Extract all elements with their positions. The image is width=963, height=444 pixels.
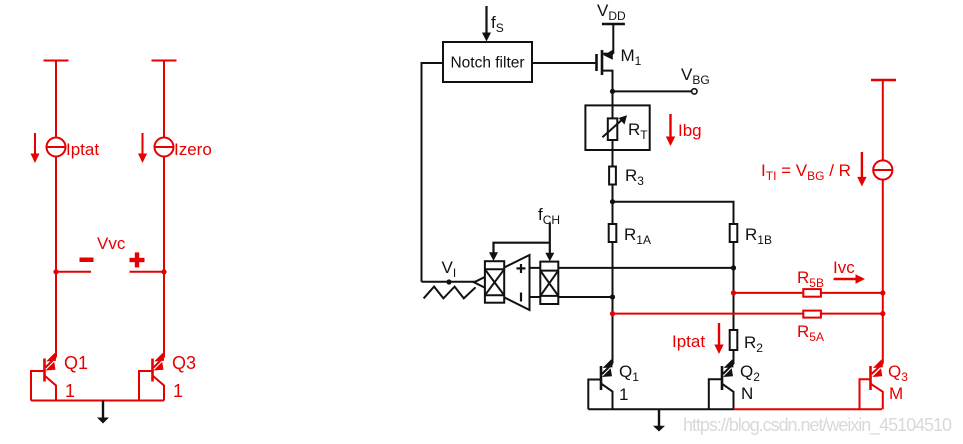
svg-text:fS: fS	[491, 13, 504, 35]
minus input mark	[520, 293, 522, 302]
node R5B right	[880, 290, 885, 295]
red branch vertical lower	[882, 180, 884, 364]
fCH wire left arrow	[489, 243, 550, 261]
wire notch filter to M1 gate	[532, 62, 597, 64]
svg-text:R3: R3	[625, 166, 644, 188]
svg-text:M1: M1	[621, 46, 642, 68]
arrow Iptat (right circuit)	[714, 323, 723, 354]
wire VI node	[422, 281, 476, 283]
arrow Ivc	[834, 274, 865, 283]
resistor R1B	[730, 224, 738, 242]
svg-text:Q1: Q1	[619, 362, 639, 384]
wire branch A upper	[55, 61, 57, 138]
svg-text:VBG: VBG	[681, 65, 710, 87]
ground left circuit	[97, 401, 109, 424]
svg-text:R5B: R5B	[797, 268, 824, 290]
capacitor Vvc plates	[56, 271, 91, 273]
arrow for Iptat	[31, 133, 40, 163]
minus sign of Vvc	[80, 258, 94, 263]
transistor M1 (PMOS)	[597, 24, 614, 91]
svg-text:Iptat: Iptat	[672, 332, 705, 351]
main branch 1 vertical wire	[612, 91, 614, 363]
svg-text:1: 1	[619, 385, 628, 404]
RT box	[585, 105, 649, 150]
bottom rail left circuit	[31, 400, 164, 402]
resistor RT	[608, 118, 618, 140]
ground right circuit	[653, 409, 665, 431]
node R5B left	[731, 290, 736, 295]
wire to branch 2	[613, 202, 734, 224]
fCH wire right arrow	[545, 223, 554, 261]
bottom rail black	[588, 408, 733, 410]
transistor Q1 (right circuit)	[588, 364, 612, 410]
transistor Q2	[709, 364, 734, 410]
svg-text:R2: R2	[744, 333, 763, 355]
node VI	[446, 279, 451, 284]
svg-text:M: M	[889, 384, 903, 403]
node minus wire to branch1	[610, 294, 615, 299]
M1 source arrow	[604, 50, 613, 60]
node R5A left	[610, 311, 615, 316]
LEFT CIRCUIT	[44, 61, 177, 358]
junction node capacitor right	[161, 269, 166, 274]
supply bar left branch A	[44, 60, 69, 62]
svg-text:Ivc: Ivc	[833, 258, 855, 277]
svg-text:Ibg: Ibg	[678, 121, 702, 140]
resistor R5A	[803, 311, 821, 318]
svg-text:R5A: R5A	[797, 322, 824, 344]
svg-text:Q3: Q3	[172, 353, 196, 373]
svg-text:R1B: R1B	[745, 225, 772, 247]
svg-text:R1A: R1A	[624, 225, 651, 247]
svg-text:Q2: Q2	[740, 362, 760, 384]
svg-text:VDD: VDD	[597, 1, 626, 23]
arrow Ibg	[666, 114, 675, 146]
transistor Q3 (left circuit)	[139, 357, 164, 401]
bottom rail red	[734, 408, 883, 410]
svg-text:Q1: Q1	[64, 353, 88, 373]
wire branch B upper	[163, 61, 165, 138]
chopper box right	[540, 262, 558, 304]
svg-text:VI: VI	[442, 258, 457, 280]
junction node capacitor left	[53, 269, 58, 274]
svg-text:Vvc: Vvc	[97, 234, 126, 253]
resistor R5B	[803, 289, 821, 297]
red wire R5A	[613, 313, 883, 315]
fS arrow	[482, 6, 491, 42]
transistor Q1 (left circuit)	[31, 357, 56, 401]
Notch filter box	[443, 42, 532, 82]
wire chopper minus output	[530, 296, 613, 298]
resistor R3	[609, 167, 616, 185]
red supply bar	[871, 79, 896, 81]
plus sign of Vvc	[130, 252, 145, 267]
wire branch A mid	[55, 157, 57, 358]
red branch vertical upper	[882, 80, 884, 161]
op-amp triangle	[474, 255, 530, 310]
arrow for Izero	[138, 133, 147, 163]
wire notch filter left feedback	[422, 63, 444, 282]
VBG open terminal	[692, 89, 697, 94]
red wire R5B	[734, 292, 883, 294]
node below R3	[610, 199, 615, 204]
branch 2 vertical wire	[733, 224, 735, 364]
node VBG junction	[610, 89, 615, 94]
current source Iptat	[47, 138, 66, 157]
resistor R1A	[609, 224, 617, 242]
svg-text:Izero: Izero	[174, 140, 212, 159]
VDD bar	[602, 23, 625, 25]
wire chopper plus output	[530, 267, 734, 269]
svg-text:1: 1	[65, 381, 75, 401]
svg-text:RT: RT	[628, 120, 648, 142]
svg-text:Notch filter: Notch filter	[450, 55, 524, 72]
svg-text:https://blog.csdn.net/weixin_4: https://blog.csdn.net/weixin_45104510	[683, 415, 952, 436]
wire to VBG terminal	[613, 90, 692, 92]
arrow ITI	[857, 152, 866, 186]
chopper box left	[485, 261, 504, 303]
svg-text:ITI = VBG / R: ITI = VBG / R	[761, 161, 851, 183]
node plus wire to branch2	[731, 265, 736, 270]
VI ripple zigzag	[424, 287, 476, 299]
current source ITI	[873, 160, 892, 179]
svg-text:N: N	[741, 384, 753, 403]
current source Izero	[155, 138, 174, 157]
svg-text:Iptat: Iptat	[66, 140, 99, 159]
supply bar right branch B	[152, 60, 177, 62]
resistor R2	[730, 330, 738, 350]
svg-text:1: 1	[173, 381, 183, 401]
svg-text:Q3: Q3	[888, 362, 908, 384]
plus input mark	[517, 264, 526, 273]
RT variable arrow	[602, 115, 627, 137]
node R5A right	[880, 311, 885, 316]
wire branch B mid	[163, 157, 165, 358]
transistor Q3 (right circuit)	[860, 364, 883, 410]
